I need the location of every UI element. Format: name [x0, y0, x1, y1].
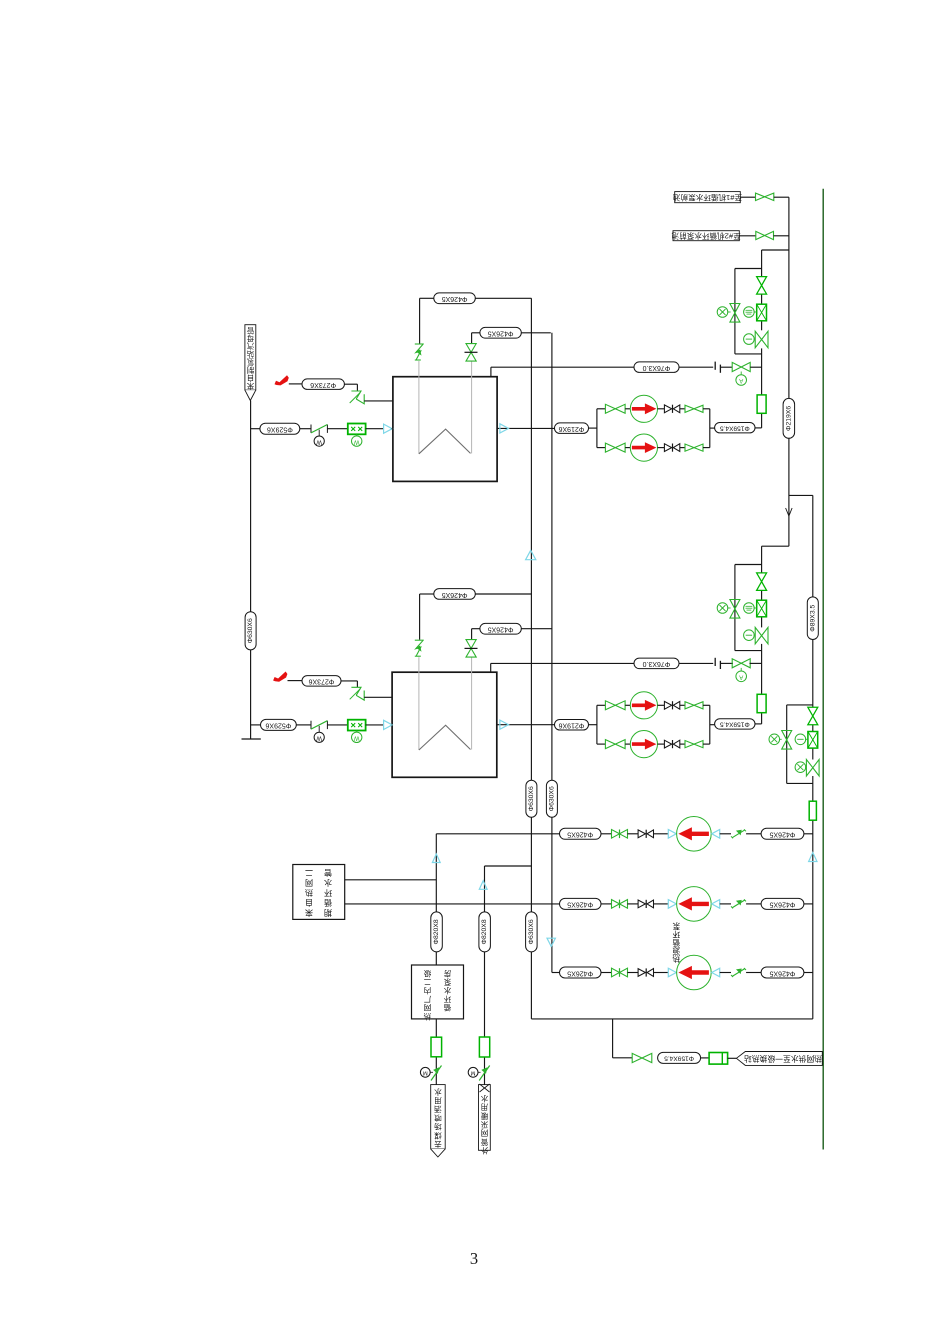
pipe label Φ630X6 (left vertical) — [245, 612, 256, 650]
wire — [746, 972, 761, 974]
svg-text:热: 热 — [305, 888, 313, 898]
flow meter on E1 feed — [348, 424, 366, 435]
wire: jog x531->x484 — [485, 865, 532, 867]
wire — [613, 1057, 633, 1059]
pipe label Φ630X6 (vertical 2) — [546, 780, 557, 817]
instrument circle — [744, 603, 755, 614]
wire — [710, 724, 715, 726]
svg-text:Φ159X4.5: Φ159X4.5 — [664, 1055, 694, 1062]
wire: row2 from box A — [345, 903, 560, 905]
heat net pump — [677, 955, 712, 990]
control valve 3 — [808, 707, 818, 716]
svg-text:二: 二 — [305, 868, 313, 877]
svg-text:Φ426X5: Φ426X5 — [442, 591, 468, 598]
svg-text:Φ630X6: Φ630X6 — [528, 786, 535, 811]
svg-text:水: 水 — [434, 1087, 442, 1097]
flow arrow on x531 — [526, 550, 536, 559]
pipe label Φ820X8 (vertical 2) — [479, 912, 491, 952]
wire — [750, 662, 762, 664]
svg-text:房: 房 — [444, 969, 452, 979]
check valve — [638, 900, 645, 908]
heat exchanger E1 shell — [393, 377, 497, 482]
safety valve on E1 vent 1 — [415, 343, 424, 345]
valve (gate) on #1 outlet — [756, 193, 765, 200]
wire — [680, 704, 685, 706]
valve (gate) on #2 outlet — [756, 231, 765, 239]
pipe label Φ630X6 (vertical) — [526, 780, 537, 817]
svg-text:Φ219X6: Φ219X6 — [558, 425, 584, 432]
wire: E2 outlet — [497, 724, 555, 726]
wire: vent header x=531 — [530, 298, 532, 1019]
flow arrow — [712, 968, 720, 977]
pipe label Φ159X4.5 (E2 pump discharge) — [715, 719, 755, 729]
wire — [391, 724, 394, 726]
wire: left steam header — [250, 401, 252, 740]
svg-text:外: 外 — [480, 1146, 488, 1156]
wire: pump suction bus — [596, 409, 598, 448]
svg-text:循: 循 — [443, 1003, 451, 1013]
svg-text:A: A — [739, 674, 743, 680]
svg-text:内: 内 — [424, 986, 432, 996]
pump outlet valve — [685, 444, 694, 451]
svg-text:自: 自 — [305, 898, 313, 908]
wire — [653, 972, 668, 974]
pump inlet valve — [605, 740, 615, 749]
svg-text:热: 热 — [423, 1012, 431, 1022]
check valve — [664, 701, 671, 709]
circulating pump — [630, 395, 657, 422]
instrument circle — [744, 334, 755, 345]
svg-text:Φ529X6: Φ529X6 — [265, 722, 291, 729]
wire: pump discharge bus — [709, 409, 711, 448]
wire: group2 vertical — [761, 546, 763, 573]
flow arrow on x552 — [547, 938, 555, 946]
svg-text:环: 环 — [324, 888, 332, 897]
pipe label Φ159X4.5 (E1 pump discharge) — [715, 423, 755, 433]
wire: left header tee 2 — [251, 724, 261, 726]
wire — [658, 704, 665, 706]
wire: jog to x=813 — [789, 494, 813, 496]
svg-text:网: 网 — [481, 1129, 489, 1138]
instrument circle — [744, 307, 755, 318]
wire — [728, 1057, 737, 1059]
svg-text:热网供水至一级换热站: 热网供水至一级换热站 — [744, 1054, 822, 1064]
wire — [327, 428, 347, 430]
wire — [746, 833, 761, 835]
svg-text:热: 热 — [672, 954, 680, 964]
E1 tube lines — [418, 361, 420, 454]
svg-text:水: 水 — [480, 1094, 488, 1104]
wire — [420, 297, 434, 299]
wire — [750, 366, 761, 368]
flow arrow — [500, 424, 509, 433]
pump discharge valve — [612, 830, 620, 839]
svg-text:3: 3 — [470, 1249, 478, 1268]
svg-text:洒: 洒 — [434, 1105, 442, 1114]
outlet valve — [632, 1053, 642, 1062]
wire: box A line 1 — [345, 879, 437, 881]
pipe break symbol — [714, 658, 716, 666]
wire: row1 from x436 — [436, 833, 559, 835]
svg-text:至#2机循环水泵前池: 至#2机循环水泵前池 — [671, 231, 741, 241]
wire: heat-supply riser x=813 — [812, 495, 814, 707]
svg-text:管: 管 — [247, 326, 254, 335]
wire: E1 outlet — [497, 427, 554, 429]
wire — [521, 332, 551, 334]
isolation valve on group3 left leg — [782, 731, 792, 740]
pipe label Φ273X6 (E2 steam) — [302, 676, 341, 687]
svg-text:M: M — [423, 1070, 428, 1076]
flow arrow — [668, 830, 676, 839]
outlet label B (去绿化浇洒用水) — [479, 1085, 491, 1151]
wire — [472, 332, 480, 334]
flow arrow on riser x=813 — [809, 853, 817, 862]
wire — [804, 972, 813, 974]
pipe label Φ159X4.5 (outlet) — [658, 1052, 701, 1063]
flap check valve — [731, 975, 733, 977]
pipe label Φ76X3.0 (2) — [634, 658, 679, 669]
wire — [625, 408, 630, 410]
svg-text:网: 网 — [305, 878, 313, 887]
heat net pump — [677, 887, 712, 922]
flow arrow — [668, 900, 676, 909]
flow arrow — [384, 720, 393, 729]
drain valve 3 — [806, 760, 812, 777]
wire — [740, 196, 755, 198]
wire: group top header — [735, 564, 762, 566]
svg-text:Φ159X4.5: Φ159X4.5 — [720, 721, 750, 728]
wire — [627, 903, 638, 905]
wire — [341, 680, 357, 682]
wire: pump suction bus — [596, 705, 598, 744]
wire — [589, 724, 597, 726]
motor valve on x484 drain — [468, 1067, 478, 1077]
flap check valve — [731, 836, 733, 838]
wire: group left leg — [734, 565, 736, 651]
svg-text:暖: 暖 — [480, 1111, 488, 1120]
wire — [701, 1057, 710, 1059]
valve on E2 vent 2 — [466, 640, 476, 649]
svg-text:Φ630X6: Φ630X6 — [247, 618, 254, 643]
wire: row3 from x552 — [552, 972, 560, 974]
wire — [804, 903, 813, 905]
wire — [788, 438, 790, 546]
outlet arrow label 热网供水至一级换热站 — [736, 1052, 822, 1066]
svg-text:Φ426X5: Φ426X5 — [442, 295, 468, 302]
pipe label Φ426X5 (to riser) — [761, 828, 804, 839]
svg-text:M: M — [471, 1070, 476, 1076]
valve with actuator box 3 — [808, 732, 818, 749]
svg-text:Φ426X5: Φ426X5 — [567, 831, 593, 838]
pipe label Φ89X3.5 (vertical) — [807, 597, 818, 640]
circulating pump — [630, 434, 657, 461]
svg-text:Φ426X5: Φ426X5 — [488, 626, 514, 633]
pipe label Φ219X6 (vertical) — [783, 398, 795, 438]
wire — [597, 743, 606, 745]
wire: left header tee — [251, 428, 260, 430]
wire — [601, 903, 612, 905]
heat exchanger E2 shell — [392, 672, 497, 777]
wire — [327, 724, 347, 726]
pipe label Φ76X3.0 — [634, 362, 679, 373]
wire — [521, 628, 552, 630]
pipe label Φ426X5 (E1 vent 2) — [480, 327, 521, 338]
svg-text:Φ273X6: Φ273X6 — [308, 678, 334, 685]
wire — [703, 408, 710, 410]
pipe label Φ426X5 (suction) — [560, 828, 602, 839]
wire — [625, 447, 630, 449]
flow arrow on riser — [786, 508, 793, 516]
svg-text:制: 制 — [247, 365, 254, 374]
svg-text:Φ426X5: Φ426X5 — [769, 831, 795, 838]
E1 tube chevron — [419, 429, 471, 454]
svg-text:Φ89X3.5: Φ89X3.5 — [809, 604, 816, 631]
wire — [289, 383, 302, 385]
safety valve on E2 vent 1 — [415, 639, 424, 641]
E2 tube chevron — [419, 725, 471, 750]
motorized valve on E2 feed — [310, 721, 312, 729]
circulating pump — [630, 731, 657, 758]
wire — [625, 704, 630, 706]
svg-text:Φ426X5: Φ426X5 — [769, 969, 795, 976]
flow orifice on riser — [809, 801, 816, 820]
steam source flag 2 — [273, 672, 287, 682]
svg-text:Φ529X6: Φ529X6 — [267, 426, 293, 433]
flap check valve — [731, 906, 733, 908]
wire — [755, 427, 762, 429]
flow orifice on group2 — [757, 694, 766, 712]
wire — [703, 704, 710, 706]
wire — [344, 383, 357, 385]
valve with actuator box — [757, 600, 767, 617]
pump inlet valve — [605, 701, 615, 710]
outlet label A (去外网供暖循环水) — [431, 1085, 446, 1149]
svg-text:W: W — [354, 735, 360, 741]
wire — [392, 428, 393, 430]
svg-text:Φ820X8: Φ820X8 — [481, 919, 488, 944]
isolation valve on left leg — [730, 304, 740, 313]
wire: pump discharge bus — [709, 705, 711, 744]
wire — [300, 428, 311, 430]
group3 left leg — [786, 705, 788, 784]
svg-text:Φ820X8: Φ820X8 — [433, 919, 440, 944]
svg-text:汽: 汽 — [246, 342, 254, 351]
svg-text:Φ630X6: Φ630X6 — [528, 919, 535, 944]
svg-text:Φ273X6: Φ273X6 — [310, 381, 336, 388]
wire — [597, 408, 606, 410]
wire — [739, 235, 756, 237]
svg-text:A: A — [739, 377, 743, 383]
wire — [627, 972, 638, 974]
flow arrow — [712, 830, 720, 839]
wire — [804, 833, 813, 835]
wire — [774, 235, 789, 237]
svg-text:用: 用 — [434, 1096, 442, 1105]
instrument circle — [717, 307, 728, 318]
drawing frame border (green) — [822, 189, 824, 1150]
wire — [625, 743, 630, 745]
wire — [627, 833, 638, 835]
instrument circle — [717, 603, 728, 614]
pump outlet valve — [685, 405, 694, 412]
svg-text:站: 站 — [246, 350, 254, 359]
instrument circle — [769, 734, 780, 745]
wire — [710, 427, 715, 429]
svg-text:网: 网 — [424, 1003, 432, 1012]
svg-text:Φ426X5: Φ426X5 — [567, 901, 593, 908]
flow orifice on x436 — [431, 1037, 442, 1057]
wire — [475, 593, 531, 595]
wire: group1 vertical x=762 — [761, 250, 763, 277]
wire: group2 feed from riser — [762, 545, 789, 547]
wire — [601, 972, 612, 974]
outlet box label 至#1机循环水泵前池 — [675, 192, 741, 203]
pipe label Φ426X5 (to riser) — [761, 898, 804, 909]
valve on E1 vent 2 — [466, 344, 476, 353]
heat net pump — [677, 817, 712, 852]
wire — [720, 833, 731, 835]
wire — [653, 903, 668, 905]
svg-text:水: 水 — [443, 986, 451, 996]
svg-text:煤: 煤 — [434, 1131, 442, 1141]
svg-text:环: 环 — [672, 930, 680, 939]
pipe label Φ273X6 (E1 steam) — [302, 379, 344, 390]
wire — [721, 366, 733, 368]
wire — [721, 662, 733, 664]
wire: group top header — [735, 268, 762, 270]
flow arrow on x436 — [432, 854, 440, 863]
svg-text:用: 用 — [481, 1103, 489, 1112]
instrument circle — [795, 734, 806, 745]
wire — [703, 447, 710, 449]
group3 header bottom — [787, 782, 813, 784]
isolation valve on left leg — [730, 600, 740, 609]
svg-text:Φ219X6: Φ219X6 — [785, 406, 792, 431]
wire — [475, 297, 531, 299]
angle valve on E2 steam inlet — [351, 687, 361, 695]
instrument circle — [744, 630, 755, 641]
svg-text:W: W — [316, 735, 322, 741]
wire — [597, 447, 606, 449]
wire — [680, 447, 685, 449]
svg-text:二: 二 — [423, 977, 431, 986]
box label B (热网厂内二级循环水泵房) — [412, 965, 464, 1019]
pipe break symbol — [714, 362, 716, 370]
pipe label Φ529X6 (E1 feed) — [260, 423, 300, 434]
svg-text:Φ426X5: Φ426X5 — [769, 901, 795, 908]
svg-text:源: 源 — [672, 946, 680, 955]
check valve — [664, 405, 671, 413]
E2 tube lines — [418, 657, 420, 750]
pipe label Φ820X8 (vertical 1) — [431, 912, 443, 952]
flow arrow — [384, 424, 393, 433]
drain valve — [755, 331, 761, 348]
wire: HX1 vent line — [490, 367, 492, 377]
svg-text:环: 环 — [443, 995, 451, 1004]
flow arrow — [712, 900, 720, 909]
instrument circle — [795, 762, 806, 773]
svg-text:W: W — [354, 438, 360, 444]
wire — [364, 696, 392, 698]
pipe label Φ426X5 (to riser) — [761, 967, 804, 978]
svg-text:Φ630X6: Φ630X6 — [548, 786, 555, 811]
valve with instrument A (2) — [732, 659, 741, 668]
wire — [296, 724, 311, 726]
valve with actuator box — [757, 304, 767, 321]
steam source label 来自制氢站汽母管 — [245, 325, 256, 390]
wire — [364, 400, 393, 402]
flow arrow — [668, 968, 676, 977]
wire — [288, 680, 303, 682]
flow arrow — [500, 720, 509, 729]
control valve — [757, 277, 767, 286]
wire: group left leg — [734, 269, 736, 354]
flow arrow on x484 — [479, 881, 487, 890]
svg-text:Φ76X3.0: Φ76X3.0 — [643, 364, 671, 371]
wire: x484 drop — [484, 866, 486, 1085]
svg-text:至#1机循环水泵前池: 至#1机循环水泵前池 — [672, 193, 742, 203]
svg-text:Φ159X4.5: Φ159X4.5 — [720, 425, 750, 432]
svg-text:喷: 喷 — [434, 1113, 442, 1123]
wire: drain header x=436 — [435, 834, 437, 1085]
svg-text:Φ426X5: Φ426X5 — [567, 969, 593, 976]
svg-text:Φ219X6: Φ219X6 — [558, 722, 584, 729]
svg-text:期: 期 — [324, 908, 332, 917]
pipe label Φ219X6 (E2 outlet) — [555, 720, 589, 731]
wire — [680, 408, 685, 410]
pump discharge valve — [612, 968, 620, 977]
flow device (green box) — [709, 1053, 728, 1065]
angle valve on E1 steam inlet — [351, 391, 361, 399]
svg-text:Φ76X3.0: Φ76X3.0 — [643, 660, 671, 667]
wire — [589, 427, 597, 429]
wire — [720, 903, 731, 905]
wire — [658, 447, 665, 449]
wire — [366, 428, 384, 430]
flow orifice on x484 — [479, 1037, 489, 1057]
wire: vent header x=552 — [551, 333, 553, 973]
svg-text:来: 来 — [305, 908, 313, 917]
control valve — [757, 573, 767, 582]
motor valve on x436 drain — [420, 1067, 430, 1077]
wire: group bottom header — [735, 650, 762, 652]
wire — [755, 723, 762, 725]
wire — [679, 366, 713, 368]
wire — [720, 972, 731, 974]
pipe label Φ219X6 (E1 outlet) — [555, 423, 589, 434]
svg-text:管: 管 — [324, 868, 332, 878]
wire — [472, 628, 480, 630]
wire: E2 vent line — [490, 663, 492, 672]
svg-text:场: 场 — [434, 1122, 442, 1131]
wire: group bottom header — [735, 353, 762, 355]
wire — [597, 704, 606, 706]
wire — [653, 833, 668, 835]
pipe label Φ426X5 (E1 vent 1) — [434, 293, 476, 304]
wire — [658, 743, 665, 745]
svg-text:管: 管 — [480, 1137, 488, 1147]
check valve — [664, 444, 671, 452]
pipe label Φ529X6 (E2 feed) — [261, 719, 297, 730]
pump inlet valve — [605, 443, 615, 452]
box label A (来自热网二期循环水) — [293, 865, 345, 920]
svg-text:级: 级 — [423, 969, 431, 979]
pump inlet valve — [605, 404, 615, 413]
svg-text:采: 采 — [480, 1120, 488, 1130]
check valve — [638, 969, 645, 977]
svg-text:去: 去 — [434, 1140, 442, 1150]
pipe label Φ426X5 (suction) — [560, 898, 602, 909]
